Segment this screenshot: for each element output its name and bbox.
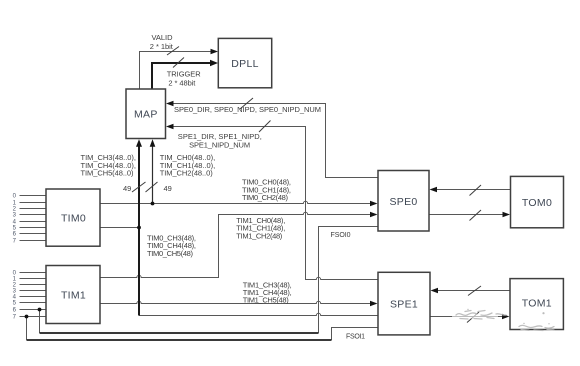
svg-text:TRIGGER: TRIGGER	[167, 70, 202, 79]
svg-text:VALID: VALID	[152, 33, 174, 42]
svg-text:TIM0_CH2(48): TIM0_CH2(48)	[242, 193, 289, 202]
svg-text:TIM1_CH2(48): TIM1_CH2(48)	[236, 232, 282, 241]
svg-text:TIM_CH2(48..0): TIM_CH2(48..0)	[160, 169, 214, 178]
svg-text:FSOI1: FSOI1	[346, 333, 365, 340]
svg-text:DPLL: DPLL	[231, 58, 258, 70]
svg-text:SPE0: SPE0	[389, 196, 417, 208]
svg-text:2 * 1bit: 2 * 1bit	[150, 42, 174, 51]
svg-text:TIM1_CH5(48): TIM1_CH5(48)	[243, 295, 290, 304]
svg-text:2 * 48bit: 2 * 48bit	[168, 79, 196, 88]
svg-text:TIM_CH5(48..0): TIM_CH5(48..0)	[81, 169, 135, 178]
svg-text:MAP: MAP	[134, 109, 158, 121]
svg-text:TOM1: TOM1	[522, 297, 552, 309]
svg-text:SPE1: SPE1	[390, 298, 418, 310]
svg-text:TOM0: TOM0	[522, 197, 552, 209]
svg-text:SPE0_DIR, SPE0_NIPD, SPE0_NIPD: SPE0_DIR, SPE0_NIPD, SPE0_NIPD_NUM	[174, 105, 321, 114]
svg-text:49: 49	[164, 184, 172, 193]
svg-text:SPE1_NIPD_NUM: SPE1_NIPD_NUM	[189, 141, 250, 150]
svg-text:TIM0_CH5(48): TIM0_CH5(48)	[147, 249, 194, 258]
svg-text:FSOI0: FSOI0	[331, 232, 351, 239]
svg-text:TIM0: TIM0	[61, 212, 86, 224]
svg-text:49: 49	[123, 184, 131, 193]
svg-text:TIM1: TIM1	[61, 289, 86, 301]
